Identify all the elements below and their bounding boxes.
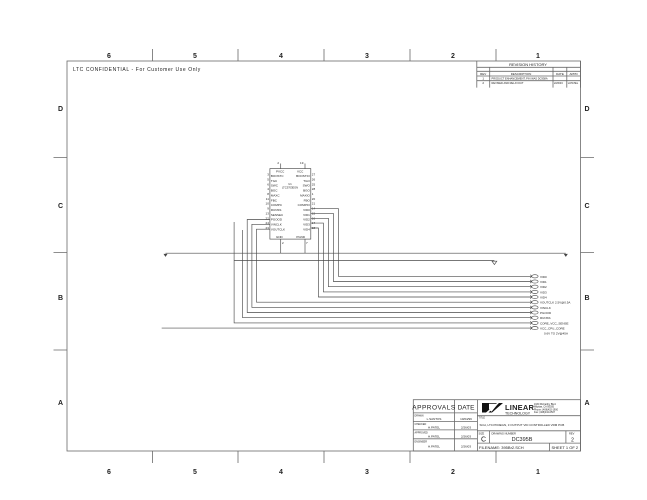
svg-text:3: 3 xyxy=(365,53,369,60)
svg-text:LTC CONFIDENTIAL - For Custome: LTC CONFIDENTIAL - For Customer Use Only xyxy=(73,67,201,73)
svg-text:DESCRIPTION: DESCRIPTION xyxy=(511,72,532,76)
svg-text:5: 5 xyxy=(193,469,197,476)
svg-text:1: 1 xyxy=(312,192,314,196)
svg-text:FBO: FBO xyxy=(304,198,311,202)
svg-text:DATE: DATE xyxy=(556,72,564,76)
svg-text:2: 2 xyxy=(571,438,574,444)
svg-text:REVISED AND RELAYOUT: REVISED AND RELAYOUT xyxy=(492,81,524,85)
svg-text:10/04/99: 10/04/99 xyxy=(460,417,472,421)
svg-text:VID0: VID0 xyxy=(540,275,547,279)
svg-text:LTC3703EGN: LTC3703EGN xyxy=(282,185,298,189)
svg-text:PGOOD: PGOOD xyxy=(271,218,283,222)
svg-text:VID1: VID1 xyxy=(540,280,547,284)
svg-text:DRAWN: DRAWN xyxy=(415,414,424,417)
svg-text:21: 21 xyxy=(312,202,316,206)
svg-text:SHEET 1 OF 2: SHEET 1 OF 2 xyxy=(552,445,579,450)
svg-text:VID4: VID4 xyxy=(303,227,310,231)
svg-text:2: 2 xyxy=(451,53,455,60)
svg-text:SENSEC: SENSEC xyxy=(271,213,284,217)
svg-text:BOOSTIO: BOOSTIO xyxy=(296,174,310,178)
svg-text:L.SANTOS: L.SANTOS xyxy=(427,417,442,421)
svg-text:BOOSTC: BOOSTC xyxy=(271,174,285,178)
svg-text:25: 25 xyxy=(312,182,316,186)
svg-text:PRODUCT ENHANCEMENT, P/N WAS D: PRODUCT ENHANCEMENT, P/N WAS DC958A xyxy=(492,76,548,80)
svg-text:1: 1 xyxy=(536,469,540,476)
svg-text:9: 9 xyxy=(267,207,269,211)
svg-text:VINCLK: VINCLK xyxy=(271,223,282,227)
svg-text:SWO: SWO xyxy=(303,184,311,188)
svg-text:VID4: VID4 xyxy=(540,296,547,300)
svg-text:RUNSS: RUNSS xyxy=(540,316,551,320)
svg-text:DC395B: DC395B xyxy=(512,437,533,443)
svg-text:A: A xyxy=(58,400,63,407)
svg-text:REV: REV xyxy=(480,72,486,76)
svg-text:11: 11 xyxy=(266,197,269,201)
svg-text:28: 28 xyxy=(312,187,316,191)
svg-text:GND: GND xyxy=(276,235,284,239)
svg-text:2/26/03: 2/26/03 xyxy=(461,426,471,430)
svg-text:2/26/03: 2/26/03 xyxy=(461,445,471,449)
svg-text:VID2: VID2 xyxy=(303,218,310,222)
svg-text:TECHNOLOGY: TECHNOLOGY xyxy=(505,412,531,416)
svg-text:REV: REV xyxy=(569,432,575,436)
svg-text:H.PATEL: H.PATEL xyxy=(428,434,440,438)
svg-text:2/26/03: 2/26/03 xyxy=(554,81,563,85)
svg-text:H.PATEL: H.PATEL xyxy=(428,445,440,449)
svg-text:PGND: PGND xyxy=(296,235,306,239)
svg-text:6: 6 xyxy=(267,182,269,186)
svg-text:5: 5 xyxy=(267,178,269,182)
svg-text:COMPC: COMPC xyxy=(271,203,283,207)
svg-text:VID0: VID0 xyxy=(303,208,310,212)
svg-text:1: 1 xyxy=(482,76,484,80)
svg-text:D: D xyxy=(58,106,63,113)
svg-text:2: 2 xyxy=(277,161,279,165)
svg-text:0.6V TO 2V@45A: 0.6V TO 2V@45A xyxy=(544,332,568,336)
svg-text:DRAWING NUMBER: DRAWING NUMBER xyxy=(492,432,517,436)
svg-text:2: 2 xyxy=(482,81,484,85)
svg-text:1: 1 xyxy=(536,53,540,60)
svg-text:C: C xyxy=(58,203,63,210)
svg-text:CORE_VCC_SENSE: CORE_VCC_SENSE xyxy=(540,321,569,325)
svg-text:27: 27 xyxy=(312,173,316,177)
svg-text:2/26/03: 2/26/03 xyxy=(461,434,471,438)
svg-text:COMPIO: COMPIO xyxy=(298,203,311,207)
svg-text:ENGINEER: ENGINEER xyxy=(415,440,428,443)
svg-text:19: 19 xyxy=(300,161,304,165)
svg-text:C: C xyxy=(584,203,589,210)
svg-text:TGO: TGO xyxy=(303,179,310,183)
svg-text:VID3: VID3 xyxy=(303,223,310,227)
svg-text:VID1: VID1 xyxy=(303,213,310,217)
svg-text:CHECKED: CHECKED xyxy=(415,423,427,426)
svg-text:FBC: FBC xyxy=(271,198,278,202)
svg-text:VOUTCLK 2.5V@0.5A: VOUTCLK 2.5V@0.5A xyxy=(540,301,570,305)
svg-text:APPROVALS: APPROVALS xyxy=(412,405,456,412)
svg-text:FILENAME: 395Br2.SCH: FILENAME: 395Br2.SCH xyxy=(479,445,524,450)
svg-text:PGOOD: PGOOD xyxy=(540,311,552,315)
svg-text:3: 3 xyxy=(267,173,269,177)
svg-text:SWC: SWC xyxy=(271,184,279,188)
svg-text:U1: U1 xyxy=(288,182,292,186)
svg-text:3: 3 xyxy=(365,469,369,476)
svg-text:RUNSS: RUNSS xyxy=(271,208,282,212)
svg-text:MAXIO: MAXIO xyxy=(300,193,310,197)
svg-text:26: 26 xyxy=(312,178,316,182)
svg-text:VINCLK: VINCLK xyxy=(540,306,551,310)
svg-text:Fax: (408)434-0507: Fax: (408)434-0507 xyxy=(534,411,556,414)
svg-text:VID2: VID2 xyxy=(540,285,547,289)
svg-text:VOUTCLK: VOUTCLK xyxy=(271,227,285,231)
svg-text:VID3: VID3 xyxy=(540,290,547,294)
svg-text:H.PATEL: H.PATEL xyxy=(568,81,579,85)
svg-text:6: 6 xyxy=(107,53,111,60)
svg-text:H.PATEL: H.PATEL xyxy=(428,426,440,430)
svg-text:SIZE: SIZE xyxy=(479,432,485,436)
svg-text:20: 20 xyxy=(312,197,316,201)
svg-text:4: 4 xyxy=(279,53,283,60)
svg-text:D: D xyxy=(584,106,589,113)
svg-text:APPROVED: APPROVED xyxy=(415,431,429,434)
svg-text:4: 4 xyxy=(267,187,269,191)
svg-text:TGC: TGC xyxy=(271,179,278,183)
svg-text:2: 2 xyxy=(282,241,284,245)
svg-text:8: 8 xyxy=(267,192,269,196)
svg-text:4: 4 xyxy=(279,469,283,476)
svg-text:VCC_CPU_CORE: VCC_CPU_CORE xyxy=(540,327,565,331)
svg-text:7: 7 xyxy=(306,241,308,245)
svg-text:5: 5 xyxy=(193,53,197,60)
svg-text:BGC: BGC xyxy=(271,189,278,193)
svg-text:13: 13 xyxy=(266,211,270,215)
svg-text:C: C xyxy=(481,437,486,444)
svg-text:TITLE: TITLE xyxy=(479,417,486,420)
svg-text:B: B xyxy=(58,295,63,302)
svg-text:BGO: BGO xyxy=(303,189,310,193)
svg-text:DATE: DATE xyxy=(458,405,476,412)
svg-text:APPD: APPD xyxy=(570,72,579,76)
svg-text:6: 6 xyxy=(107,469,111,476)
svg-text:2: 2 xyxy=(451,469,455,476)
svg-text:A: A xyxy=(584,400,589,407)
svg-text:10: 10 xyxy=(266,202,270,206)
svg-text:SCH, LTC3703EGN, 3 OUTPUT VID: SCH, LTC3703EGN, 3 OUTPUT VID CONTROLLED… xyxy=(480,423,565,427)
svg-text:REVISION HISTORY: REVISION HISTORY xyxy=(509,62,547,67)
svg-text:B: B xyxy=(584,295,589,302)
svg-text:MAXC: MAXC xyxy=(271,193,281,197)
